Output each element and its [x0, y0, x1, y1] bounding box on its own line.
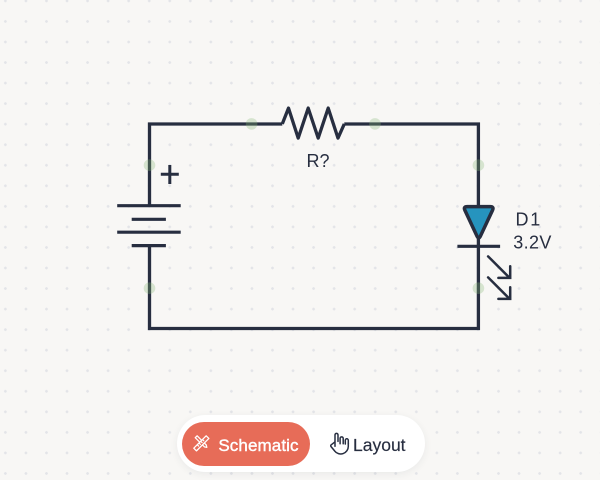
resistor R? — [282, 108, 344, 138]
node: left wire lower junction — [144, 282, 156, 294]
wire: battery positive to top-left corner to resistor — [150, 124, 283, 206]
button Layout icon: pointer hand — [330, 432, 350, 456]
LED emission arrow 2 — [488, 277, 510, 299]
button Schematic (active) — [182, 422, 310, 466]
node: right wire upper junction — [473, 159, 485, 171]
battery V1 plate 2 (short) — [132, 218, 166, 221]
battery V1 plate 1 (long) — [117, 204, 181, 207]
battery V1 plus sign — [161, 165, 179, 184]
svg-text:D1: D1 — [516, 210, 543, 230]
wire: resistor to top-right corner to LED anode — [344, 124, 478, 207]
node: top wire left junction — [246, 118, 258, 130]
LED cathode bar — [457, 245, 500, 248]
LED D1 triangle — [464, 207, 493, 238]
node: top wire right junction — [369, 118, 381, 130]
label D1 — [516, 210, 543, 230]
wire: LED tip to cathode bar — [477, 239, 480, 246]
label 3.2V — [513, 233, 552, 253]
svg-text:3.2V: 3.2V — [513, 233, 552, 253]
LED emission arrow 1 — [488, 256, 510, 278]
battery V1 plate 4 (short) — [132, 244, 166, 247]
node: right wire lower junction — [473, 282, 485, 294]
svg-text:R?: R? — [306, 151, 329, 171]
label R? — [306, 151, 329, 171]
toolbar container — [177, 415, 425, 472]
wire: LED cathode down to bottom-right corner to bottom-left corner up to battery negative — [150, 246, 479, 328]
icon: ruler and pencil crossed — [193, 435, 210, 452]
button Layout label — [353, 432, 406, 458]
node: left wire upper junction — [144, 159, 156, 171]
battery V1 plate 3 (long) — [117, 231, 181, 234]
